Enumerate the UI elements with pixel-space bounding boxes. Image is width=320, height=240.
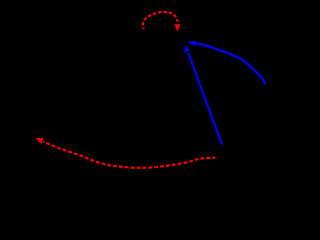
blue line arrowhead — [185, 45, 190, 53]
blue straight edge from bottom right — [188, 53, 222, 145]
self-loop edge (red dashed) — [143, 12, 177, 29]
blue curved edge from right — [195, 43, 266, 84]
long bottom edge (red dashed) — [43, 142, 215, 168]
self-loop arrowhead — [175, 24, 181, 32]
bottom-left arrowhead — [36, 138, 44, 144]
blue curve arrowhead — [187, 41, 196, 46]
